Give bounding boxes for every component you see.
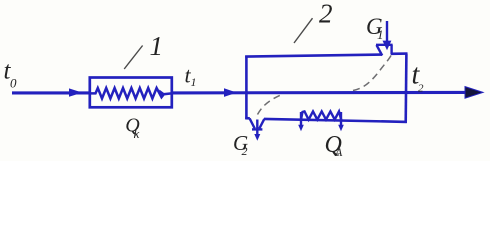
vessel 2: top edge (left of G1 inlet notch) <box>245 55 382 57</box>
G1 inlet funnel on top edge <box>376 45 393 56</box>
vessel 2: top edge (right of G1 inlet notch) <box>391 52 408 55</box>
svg-text:1: 1 <box>150 31 164 61</box>
svg-text:0: 0 <box>10 76 17 91</box>
arrowhead on wire between heater 1 and vessel 2 <box>224 88 237 97</box>
QA right end arrow (downward) <box>338 112 344 131</box>
G1 inlet arrow (downward into vessel 2) <box>383 21 392 50</box>
resistor: heating element zigzag QA on bottom edge of vessel 2 <box>301 111 341 119</box>
arrowhead: outlet arrow t2 (large, dark) <box>465 87 483 99</box>
svg-text:2: 2 <box>242 144 248 158</box>
resistor: heating element zigzag Qk inside box 1 <box>91 88 172 99</box>
G2 outlet arrow (downward out of vessel 2) <box>254 120 260 141</box>
vessel 2: bottom edge (left stub before G2 outlet) <box>245 117 250 120</box>
G2 outlet funnel on bottom edge <box>250 118 265 129</box>
vessel 2: right edge <box>404 54 407 123</box>
leader line for label 2 <box>294 18 313 43</box>
wire: inlet line from t0 into heater 1 <box>12 91 90 94</box>
vessel 2: bottom edge (right of G2 outlet) <box>264 119 407 122</box>
thick end tip of zigzag Qk <box>159 90 165 98</box>
svg-text:1: 1 <box>377 27 384 42</box>
svg-text:2: 2 <box>319 0 333 29</box>
heater box 1 <box>90 78 172 108</box>
svg-text:k: k <box>134 126 140 141</box>
svg-text:1: 1 <box>191 75 197 89</box>
vessel 2: left edge <box>245 56 248 120</box>
dashed temperature curve (right part, rising to G1 inlet) <box>353 56 391 91</box>
leader line for label 1 <box>124 46 142 70</box>
dashed temperature curve (left part, rising from G2 outlet to main line) <box>258 94 284 115</box>
svg-text:2: 2 <box>418 83 424 95</box>
QA left end arrow (downward) <box>298 112 304 131</box>
svg-text:A: A <box>334 145 343 159</box>
wire: main flow line from heater 1 through vessel 2 to t2 <box>171 91 467 95</box>
arrowhead on inlet wire before heater 1 <box>69 88 82 96</box>
